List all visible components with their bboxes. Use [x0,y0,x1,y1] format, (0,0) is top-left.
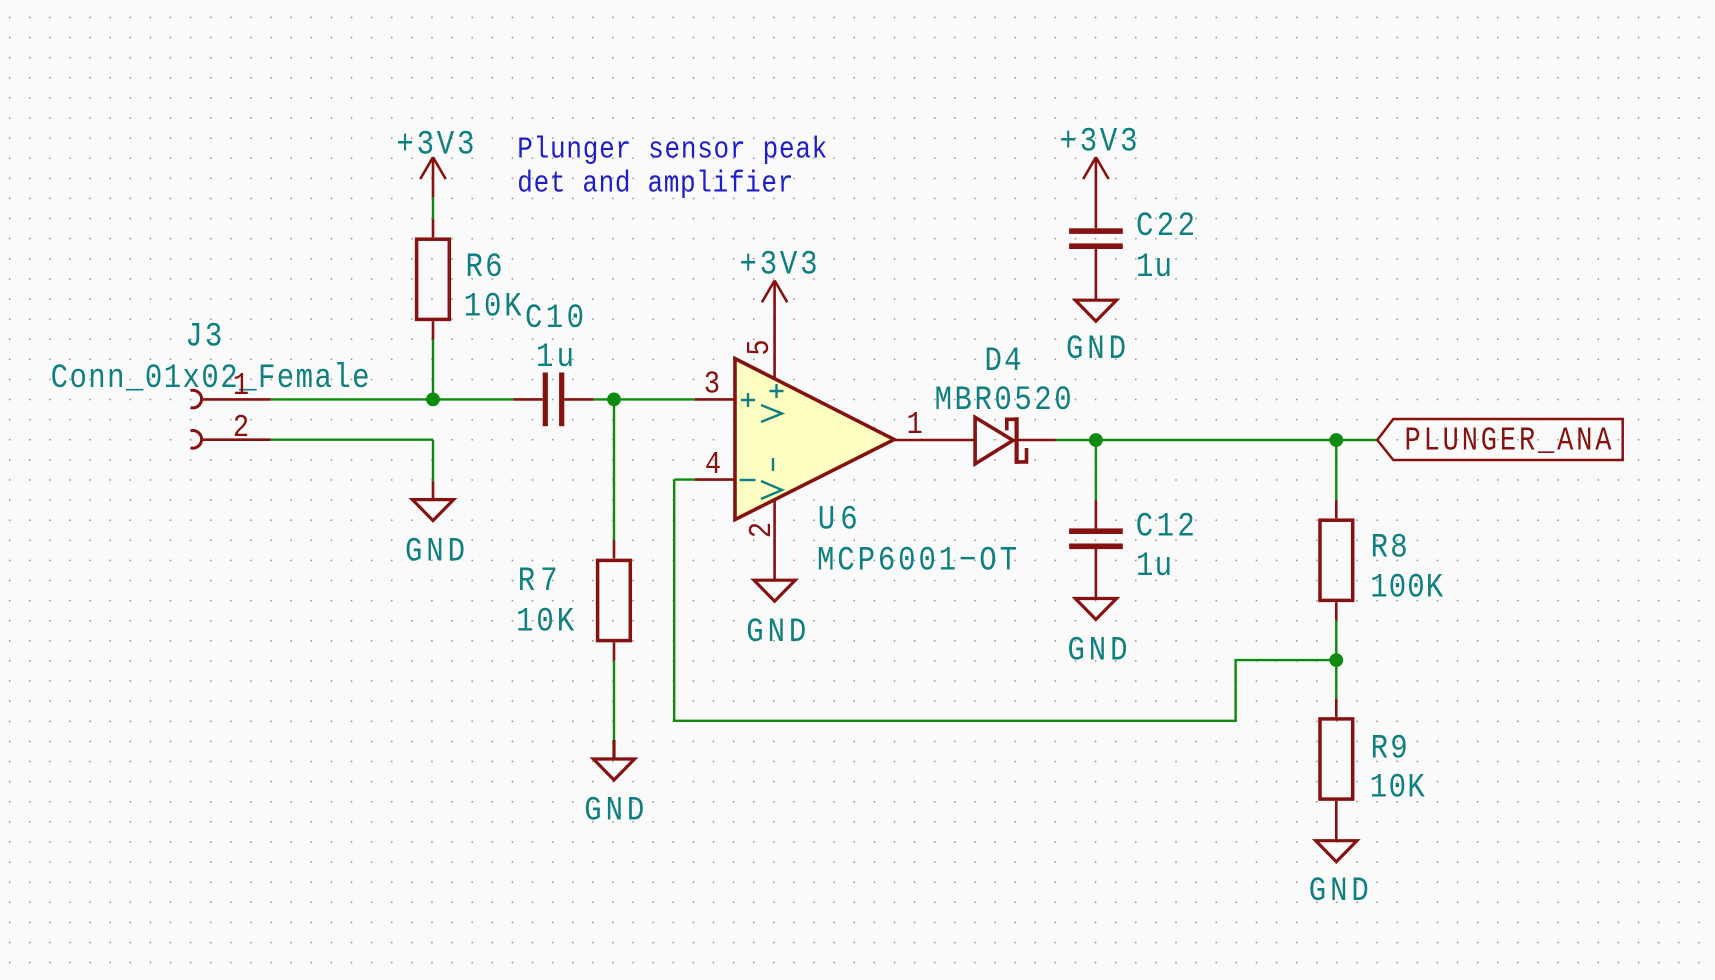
pin R6 top [432,219,435,237]
pin R9 bottom to GND [1335,801,1338,841]
svg-text:10K: 10K [1370,767,1426,807]
connector J3 socket pin1 [191,390,202,408]
wire diode out to label [1056,439,1378,441]
svg-text:GND: GND [1066,329,1126,369]
pin C22 top + power stem [1095,157,1098,228]
hierarchical label PLUNGER_ANA outline [1377,419,1622,460]
pin R6 bottom [432,321,435,339]
capacitor C22 plates [1069,228,1123,234]
pin U6-4 [695,478,735,481]
+3V3 arrow at R6 [420,157,445,197]
svg-text:GND: GND [1309,871,1369,911]
svg-text:GND: GND [1068,630,1128,670]
wire C10 to opamp pin3 [594,398,695,400]
svg-text:10K: 10K [516,601,575,641]
svg-text:PLUNGER_ANA: PLUNGER_ANA [1405,423,1613,460]
ground symbol C22 [1075,300,1116,321]
pin C12 top [1095,500,1098,528]
junction R8 [1329,433,1343,447]
svg-text:GND: GND [584,790,644,830]
wire pin4 stub [674,478,695,480]
op-amp input - marker [740,479,756,481]
svg-text:det and amplifier: det and amplifier [517,165,793,201]
svg-text:1: 1 [233,368,249,404]
svg-text:Plunger sensor peak: Plunger sensor peak [517,132,827,168]
pin J3-1 [201,398,271,401]
pin C12 bottom to GND [1095,549,1098,599]
op-amp U6 triangle [735,359,894,520]
junction R8/R9 [1329,653,1343,667]
resistor R7 [598,560,631,640]
resistor R8 [1320,520,1353,600]
pin U6-2 to GND [773,500,776,580]
pin D4 cathode [1017,439,1056,442]
pin R9 top [1335,699,1338,717]
op-amp V+ marker [770,384,784,398]
svg-text:1u: 1u [1136,546,1172,586]
ground symbol C12 [1075,599,1116,620]
wire J3 pin2 horizontal [271,439,434,441]
svg-text:1u: 1u [1136,247,1172,287]
junction R6/wire1 [426,393,440,407]
diode D4 [975,417,1026,464]
ground symbol R9 [1316,841,1357,862]
svg-text:C22: C22 [1136,206,1195,246]
svg-text:3: 3 [704,366,720,402]
connector J3 socket pin2 [191,431,202,449]
capacitor C10 plates [543,228,1123,549]
junction C10/R7 [607,393,621,407]
svg-text:GND: GND [405,531,465,571]
svg-text:GND: GND [746,612,806,652]
op-amp V- marker [772,458,774,471]
wire junction to R7 top [613,399,615,540]
svg-text:10K: 10K [464,286,523,326]
pin J3 GND stem [432,481,435,499]
pin J3-2 [201,438,271,441]
svg-text:100K: 100K [1370,567,1444,607]
pin C22 bottom to GND [1095,249,1098,300]
ground symbol R7 [593,740,634,780]
+3V3 arrow at C22 [1083,157,1108,179]
pin U6-3 [695,398,735,401]
+3V3 arrow at U6 pin5 [762,281,787,303]
pin R8 top [1335,500,1338,518]
op-amp input + marker [740,384,784,499]
pin R8 bottom [1335,602,1338,620]
pin R7 top [613,540,616,558]
capacitor C12 plates [1069,528,1123,534]
svg-text:MBR0520: MBR0520 [935,380,1072,420]
resistor R9 [1320,719,1353,799]
wire junction to R8 top [1335,440,1337,500]
pin U6-1 output / D4 anode [894,439,975,442]
wire junction to C12 [1095,440,1097,500]
ground symbol J3 [412,500,453,521]
svg-text:Conn_01x02_Female: Conn_01x02_Female [51,358,370,398]
pin R7 bottom [613,643,616,661]
note text [517,132,827,201]
svg-text:1: 1 [907,407,923,443]
svg-text:5: 5 [742,339,778,355]
resistor R6 [417,239,450,319]
svg-text:2: 2 [744,522,780,538]
wire J3 pin1 to C10 [271,398,514,400]
svg-text:C12: C12 [1136,506,1195,546]
wire J3 pin2 down to GND [432,440,434,482]
ground symbol U6 pin2 [754,580,795,601]
pin C10 right [564,398,593,401]
wire R7 bottom to GND [613,661,615,740]
svg-text:4: 4 [705,447,721,483]
svg-text:2: 2 [233,410,249,446]
junction C12 [1089,433,1103,447]
pin U6-5 power [773,281,776,379]
svg-text:C10: C10 [525,298,584,338]
pin C10 left [513,398,542,401]
wire +3V3 to R6 [432,197,434,219]
wire feedback loop [674,480,1336,721]
wire R6 bottom to junction [432,340,434,400]
pin numbers dark red [233,339,923,538]
wire R8 bottom to R9 top [1335,621,1337,699]
